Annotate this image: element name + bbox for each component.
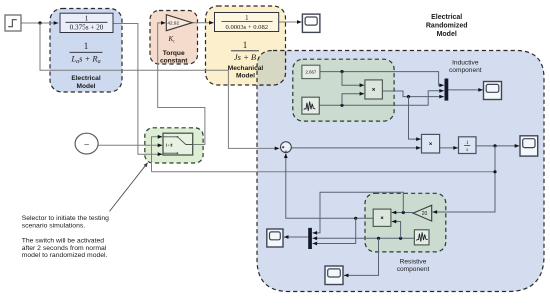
math label 1/(Js+B) — [231, 40, 259, 62]
wire: integrator feedback to gain 20 — [433, 146, 497, 214]
region: resistive randomization (green box 2) — [365, 193, 446, 252]
wire: integrator feedback long line — [152, 171, 496, 173]
svg-text:0.0003s + 0.082: 0.0003s + 0.082 — [226, 24, 269, 31]
mux 1 — [445, 79, 449, 101]
svg-text:Randomized: Randomized — [426, 23, 468, 30]
svg-text:1: 1 — [85, 14, 89, 23]
constant 2.667 — [302, 65, 320, 78]
region: Torque constant (salmon box) — [150, 11, 198, 65]
wire: step to electrical TF — [21, 21, 58, 25]
svg-text:The switch will be activated: The switch will be activated — [22, 237, 105, 244]
wire: gain20 branch to mux2 in1 — [313, 192, 404, 235]
wire: constant branch to product1 in1 — [342, 72, 364, 88]
svg-text:model to randomized model.: model to randomized model. — [22, 252, 108, 259]
product block 1 (inductance) — [365, 80, 383, 99]
wire: electrical TF out to switch in3 — [113, 24, 162, 157]
region: Electrical Randomized Model (blue area) — [257, 51, 544, 292]
scope: randomized out — [267, 229, 283, 247]
wire: selector constant to switch in2 — [98, 143, 162, 147]
svg-text:Electrical: Electrical — [71, 75, 100, 82]
svg-text:0.375s + 20: 0.375s + 20 — [70, 24, 104, 32]
wire: product2 to integrator — [440, 146, 458, 150]
transfer function 1/(0.0003s+0.082) — [215, 13, 279, 32]
svg-text:2.667: 2.667 — [306, 70, 317, 75]
scope: current — [520, 136, 538, 156]
wire: mux1 to inductance scope — [448, 88, 483, 92]
wire: gain20 to product3 in1 — [392, 211, 413, 215]
wire: constant 2.667 to mux1 in1 — [320, 70, 444, 87]
svg-text:component: component — [397, 266, 430, 273]
region: Electrical Model (blue box) — [50, 9, 122, 93]
wire: torque gain to mechanical TF — [192, 21, 214, 25]
gain 20 (left pointing) — [413, 205, 432, 221]
wire: branch to resistance scope — [344, 238, 379, 277]
svg-text:Resistive: Resistive — [400, 258, 427, 265]
transfer function 1/(0.375s+20) — [60, 13, 113, 32]
selector constant (circle source) — [75, 133, 98, 154]
wire: step branch to sum input — [40, 23, 279, 150]
integrator 1/s — [459, 137, 477, 154]
wire: noise branch to product1 in2 — [342, 92, 364, 106]
multiport switch block — [163, 133, 193, 155]
sum junction — [281, 142, 292, 153]
svg-text:Inductive: Inductive — [452, 59, 479, 66]
svg-text:Model: Model — [437, 31, 457, 38]
scope: motor speed — [302, 14, 320, 32]
wire: product1 out to mux1 in3 — [382, 91, 444, 99]
step source block — [5, 15, 21, 31]
svg-text:1: 1 — [245, 15, 248, 22]
svg-text:Electrical: Electrical — [431, 14, 462, 21]
svg-text:42.92: 42.92 — [168, 21, 180, 26]
product block 2 (di/dt) — [422, 134, 440, 153]
svg-text:Selector to initiate the testi: Selector to initiate the testing — [22, 215, 109, 222]
wire: switch out to torque gain — [158, 21, 205, 145]
scope: resistance — [325, 266, 343, 285]
noise generator 1 — [302, 97, 319, 114]
svg-text:s: s — [466, 148, 468, 153]
wire: mechanical TF to speed scope — [279, 20, 302, 24]
wire: feedback to switch in1 — [152, 135, 163, 172]
svg-text:constant: constant — [160, 57, 188, 64]
region: inductive randomization (green box 1) — [293, 59, 394, 121]
wire: noise gen1 to mux1 in2 — [319, 89, 444, 107]
svg-text:Las + Ra: Las + Ra — [70, 54, 100, 66]
svg-text:Model: Model — [76, 83, 95, 90]
svg-text:Mechanical: Mechanical — [228, 65, 264, 72]
region: selector switch (green box) — [145, 128, 203, 163]
scope: inductance — [484, 82, 502, 100]
wire: sum out to product2 — [291, 146, 420, 150]
wire: noise2 branch to product3 in2 — [392, 220, 401, 239]
wire: product3 branch to mux2 in3 — [313, 218, 356, 245]
mux 2 — [308, 228, 312, 249]
svg-text:Torque: Torque — [163, 50, 185, 57]
svg-text:20: 20 — [422, 211, 428, 217]
noise generator 2 — [414, 230, 429, 245]
wire: product1 branch to product2 in1 — [409, 97, 421, 141]
svg-text:1: 1 — [84, 41, 89, 51]
product block 3 (resistance) — [373, 209, 391, 226]
svg-text:scenario simulations.: scenario simulations. — [22, 223, 86, 230]
region: Mechanical Model (yellow box) — [206, 6, 286, 85]
overlap of mechanical and blue regions — [206, 6, 286, 85]
gain Kt 42.92 — [166, 15, 192, 31]
svg-text:Model: Model — [236, 72, 255, 79]
wire: product3 out to sum bottom — [284, 153, 373, 220]
svg-text:Js + B: Js + B — [234, 52, 256, 62]
wire: mux2 to scope3 — [284, 235, 308, 239]
svg-text:after 2 seconds from normal: after 2 seconds from normal — [22, 245, 107, 252]
annotation arrow — [110, 162, 148, 211]
math label 1/(La s+Ra) — [70, 41, 103, 65]
svg-text:component: component — [449, 67, 482, 74]
svg-text:1: 1 — [243, 40, 248, 50]
wire: noise gen2 to mux2 in2 — [313, 236, 415, 240]
wire: integrator to current scope — [476, 144, 519, 148]
